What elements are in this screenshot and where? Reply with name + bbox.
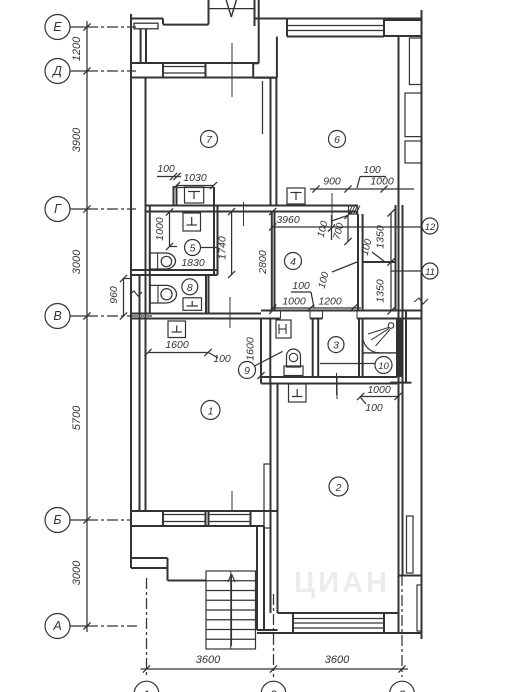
window tick room 6 bottom	[331, 193, 333, 225]
closet partition room 7	[173, 186, 175, 206]
svg-text:1350: 1350	[375, 279, 387, 303]
svg-text:1000: 1000	[370, 176, 394, 188]
room 5 right wall	[213, 187, 215, 275]
shower tray room 10	[363, 319, 397, 353]
right wall niche block 1	[409, 38, 421, 85]
entrance arrow	[226, 0, 231, 17]
room 3 number circle	[328, 337, 344, 353]
room 4 number circle	[285, 253, 302, 270]
axis Д leader and dash-dot line	[70, 70, 87, 72]
niche room 1 side	[264, 464, 271, 528]
right strip connector	[390, 382, 412, 384]
hatched pier on G wall	[349, 206, 358, 215]
axis Г circle	[45, 197, 70, 222]
tick through B wall	[231, 491, 233, 511]
window centerline tick	[231, 43, 233, 97]
svg-text:В: В	[53, 309, 61, 323]
svg-text:2: 2	[269, 688, 277, 692]
axis 3 dash-dot line	[401, 575, 403, 677]
svg-text:12: 12	[425, 222, 436, 233]
svg-text:5700: 5700	[71, 405, 83, 430]
room 5 number circle	[185, 240, 201, 256]
room 1 number circle	[201, 401, 220, 420]
room 12 number circle and leader	[422, 218, 438, 234]
room 9 left wall	[260, 319, 262, 384]
dimension 1600 vertical room 9	[260, 319, 262, 376]
axis dimension line vertical left	[86, 21, 88, 632]
pier right of B wall	[251, 511, 265, 526]
room 10 number circle and leader	[375, 357, 392, 374]
closet top edge room 7	[177, 187, 215, 189]
window 2 in B wall	[209, 514, 251, 516]
dimension 100 leader room 6	[360, 176, 386, 178]
dimension 1600 room 1	[148, 352, 208, 354]
svg-text:1600: 1600	[165, 339, 189, 351]
axis 1 dash-dot line	[146, 578, 148, 677]
right wall niche block 2	[405, 93, 422, 137]
svg-text:9: 9	[244, 365, 250, 377]
toilet room 9	[287, 349, 301, 367]
axis 2 circle	[261, 681, 286, 692]
door jamb tick corridor top	[243, 202, 245, 226]
room 5 bottom wall	[131, 269, 218, 271]
dimension 100 closet wall	[157, 176, 181, 178]
room 11 number circle and leader	[391, 270, 422, 272]
top right pier	[384, 20, 422, 36]
entrance vestibule walls	[208, 0, 210, 25]
room 9 number circle and leader	[239, 362, 256, 379]
dimension 700 shaft	[347, 215, 349, 242]
svg-text:100: 100	[363, 164, 381, 176]
wall on axis G	[146, 205, 359, 207]
heater box room 9	[276, 320, 291, 338]
bottom dimension line	[141, 668, 409, 670]
axis В leader and dash-dot line	[70, 315, 87, 317]
dimension 100 leader below room 10	[361, 398, 366, 405]
dimension 900 room 6	[310, 188, 414, 190]
svg-text:1740: 1740	[217, 236, 229, 260]
block bottom wall	[261, 376, 397, 378]
svg-text:3000: 3000	[71, 560, 83, 585]
svg-text:8: 8	[187, 282, 193, 294]
window in bottom wall	[293, 618, 384, 620]
dimension 1000 below room 10	[361, 396, 398, 398]
right outer wall	[421, 10, 423, 639]
axis В circle	[45, 304, 70, 329]
svg-text:1600: 1600	[245, 337, 257, 361]
svg-text:100: 100	[213, 353, 231, 365]
dimension 100 leader room 1	[209, 353, 219, 359]
left wall middle line lower	[139, 275, 141, 511]
svg-text:6: 6	[334, 134, 340, 146]
stair up arrow	[231, 575, 233, 646]
entrance corner pier	[258, 26, 260, 63]
staircase	[206, 571, 256, 649]
svg-text:3900: 3900	[71, 127, 83, 152]
wall on axis V left	[131, 313, 261, 315]
svg-text:5: 5	[190, 243, 196, 255]
svg-text:960: 960	[108, 286, 120, 304]
room 10 right wall	[396, 319, 398, 378]
dimension 100 lower leader	[332, 262, 357, 272]
svg-text:3600: 3600	[325, 654, 350, 666]
right wall niche block 3	[405, 141, 422, 163]
svg-text:3: 3	[399, 688, 406, 692]
svg-text:1: 1	[143, 688, 150, 692]
dimension 100 divider leader	[372, 252, 385, 262]
svg-text:900: 900	[323, 176, 341, 188]
svg-text:4: 4	[290, 256, 296, 268]
axis Е circle	[45, 15, 70, 40]
shaft divider 11-12	[363, 261, 396, 263]
window in D wall	[163, 66, 206, 68]
shaft left wall	[357, 214, 359, 311]
break mark left wall	[130, 291, 142, 296]
tick through V wall	[229, 297, 231, 328]
axis А circle	[45, 614, 70, 639]
svg-text:1000: 1000	[367, 384, 391, 396]
right wall bottom block	[417, 585, 422, 631]
svg-text:Е: Е	[53, 20, 62, 34]
svg-text:100: 100	[365, 402, 383, 414]
right wall inner line	[398, 37, 400, 634]
svg-text:Г: Г	[54, 202, 62, 216]
partition rooms 1-2	[270, 384, 272, 614]
top wall left section	[131, 18, 163, 20]
dimension 3960 corridor	[273, 226, 422, 228]
closet edge room 7	[262, 81, 264, 134]
partition rooms 3-10	[358, 319, 360, 378]
wardrobe box room 6	[287, 188, 305, 204]
svg-text:1200: 1200	[318, 296, 342, 308]
partition rooms 9-3	[312, 319, 314, 378]
svg-text:1030: 1030	[183, 172, 207, 184]
axis 3 circle	[390, 681, 415, 692]
dimension 2800 vertical corridor	[269, 208, 276, 215]
lobby bottom wall	[131, 557, 168, 559]
tick through room 2 top wall	[336, 377, 338, 399]
svg-text:2800: 2800	[257, 250, 269, 275]
window 1 in B wall	[163, 514, 206, 516]
right wall lower block	[407, 516, 414, 573]
svg-text:1000: 1000	[282, 296, 306, 308]
bottom outer wall	[278, 612, 399, 614]
wall on axis V corridor part	[261, 310, 397, 312]
room 6 number circle	[329, 131, 346, 148]
svg-text:11: 11	[425, 267, 435, 278]
svg-text:100: 100	[157, 163, 175, 175]
break mark right wall	[414, 298, 428, 304]
left wall inner face upper	[145, 78, 147, 512]
shower head room 10	[388, 323, 394, 329]
wall on axis D	[131, 62, 259, 64]
svg-text:Д: Д	[51, 64, 62, 78]
room 2 number circle	[329, 477, 348, 496]
bathroom block inner wall line	[149, 206, 151, 314]
svg-text:3960: 3960	[276, 214, 300, 226]
top wall right of vestibule	[255, 18, 288, 20]
corridor left wall	[271, 212, 273, 311]
shaft corridor wall extra line	[405, 311, 407, 383]
svg-text:1830: 1830	[181, 257, 205, 269]
wall on axis B	[131, 510, 278, 512]
wardrobe box room 7	[185, 187, 204, 203]
dimension 1350 room 11	[390, 262, 392, 311]
left outer wall	[130, 14, 132, 568]
svg-text:100: 100	[292, 280, 310, 292]
towel dryer box room 5	[183, 213, 201, 231]
room 8 right wall	[205, 275, 207, 314]
svg-text:ЦИАН: ЦИАН	[294, 567, 390, 599]
axis Г leader and dash-dot line	[70, 208, 87, 210]
svg-text:Б: Б	[53, 513, 61, 527]
shaft right wall	[395, 205, 397, 311]
dimension 1030 closet	[177, 185, 214, 187]
axis Б leader and dash-dot line	[70, 519, 87, 521]
axis А leader and dash-dot line	[70, 625, 87, 627]
svg-text:А: А	[52, 619, 61, 633]
dimension 960 vertical	[123, 279, 125, 317]
sink room 8	[150, 285, 177, 303]
svg-text:1: 1	[208, 406, 214, 418]
axis 1 circle	[134, 681, 159, 692]
wardrobe box room 1	[168, 321, 186, 338]
partition rooms 7-6	[270, 78, 272, 206]
tick through block bottom wall room 3	[336, 373, 338, 395]
door jamb ticks corridor bottom	[280, 311, 282, 319]
room 7 number circle	[201, 131, 218, 148]
svg-text:1350: 1350	[375, 225, 387, 249]
pilaster T left	[134, 23, 158, 29]
svg-text:1200: 1200	[71, 36, 83, 61]
dimension 1350 room 12	[390, 213, 392, 262]
svg-text:3000: 3000	[71, 249, 83, 274]
stair shaft right wall	[256, 526, 258, 630]
towel box room 8	[183, 298, 202, 311]
svg-text:1000: 1000	[154, 217, 166, 241]
right wall second line	[402, 205, 404, 576]
svg-text:3600: 3600	[196, 654, 221, 666]
dimensions 100 1000 1200 corridor bottom	[291, 291, 311, 293]
svg-text:3: 3	[333, 340, 339, 352]
axis Е leader and dash-dot line	[70, 26, 87, 28]
axis 2 dash-dot line	[273, 594, 275, 677]
room 8 number circle	[182, 279, 198, 295]
axis Д circle	[45, 59, 70, 84]
axis Б circle	[45, 508, 70, 533]
dimension 1740 vertical	[231, 212, 233, 275]
svg-text:2: 2	[335, 482, 342, 494]
wardrobe box room 2	[289, 384, 307, 402]
top window band room 6	[287, 18, 422, 20]
sink room 5	[150, 253, 176, 269]
svg-text:10: 10	[378, 361, 389, 372]
dimension 100 and leaders top right corridor	[331, 215, 333, 240]
dimension 1000 vertical room 5	[169, 212, 171, 247]
